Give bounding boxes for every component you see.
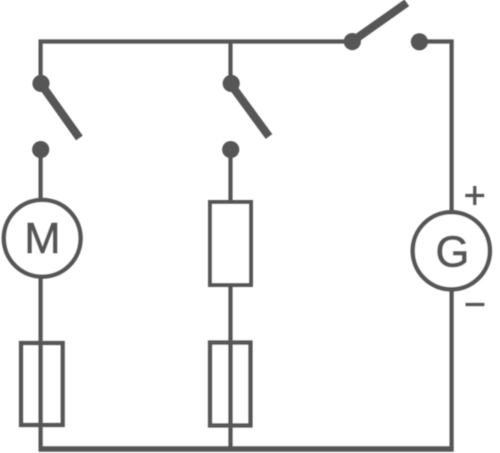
- svg-text:M: M: [24, 215, 60, 263]
- svg-text:G: G: [435, 228, 469, 276]
